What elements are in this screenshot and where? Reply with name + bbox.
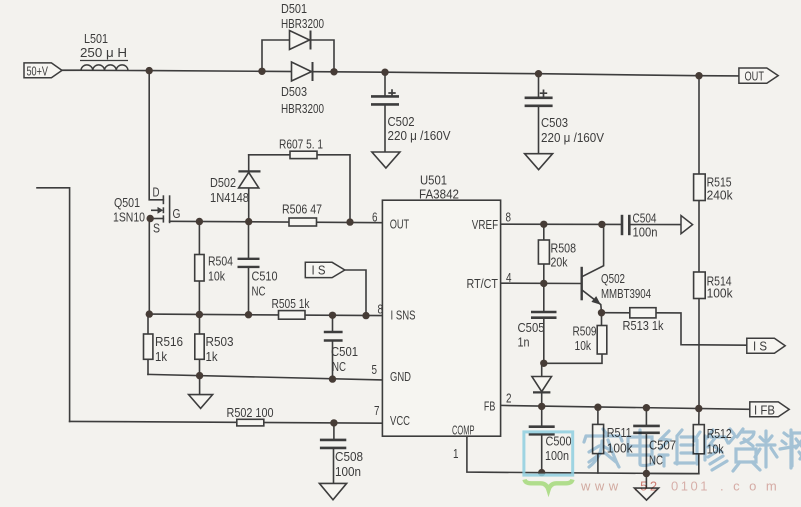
wire: C502 branch down from rail <box>384 72 386 96</box>
svg-text:R508: R508 <box>551 241 577 256</box>
wire: ISNS line pin 8 <box>149 314 382 316</box>
resistor R516 <box>144 334 153 359</box>
svg-text:R502 100: R502 100 <box>227 405 274 420</box>
wire: Q501 source down to ISNS line <box>148 219 150 315</box>
wire: +V rail from 50+V input to OUT <box>62 70 739 76</box>
svg-text:100k: 100k <box>707 286 733 301</box>
op-amp U501 FA3842 IC box <box>382 200 500 436</box>
diode D503 HBR3200 <box>292 62 313 81</box>
svg-text:R513 1k: R513 1k <box>623 318 664 333</box>
wire: C503 branch down from rail <box>538 74 540 98</box>
capacitor C501 NC <box>324 332 343 341</box>
wire: R503 top <box>199 315 201 335</box>
svg-text:100n: 100n <box>633 225 658 240</box>
wire: emitter node through R513 <box>602 312 630 314</box>
svg-text:I S: I S <box>312 262 326 277</box>
watermark char xiu <box>694 430 728 470</box>
node: output tag OUT <box>739 68 778 83</box>
svg-text:www: www <box>580 479 623 494</box>
wire: R607 horizontal branch and down to gate line <box>249 155 350 222</box>
svg-text:C503: C503 <box>541 115 568 130</box>
wire: C504 to arrow <box>630 224 682 226</box>
wire: R513 right to IS line <box>656 313 747 345</box>
watermark char wei <box>659 430 694 466</box>
svg-text:10k: 10k <box>575 338 592 353</box>
svg-text:VCC: VCC <box>390 413 410 428</box>
wire: R504 vertical through <box>198 222 200 315</box>
svg-text:R607 5. 1: R607 5. 1 <box>279 137 323 152</box>
svg-text:250 μ H: 250 μ H <box>80 45 127 60</box>
capacitor C508 <box>320 440 346 448</box>
resistor R505 <box>279 311 306 320</box>
svg-text:5: 5 <box>372 362 378 377</box>
wire: IS tag to ISNS line <box>345 270 366 316</box>
capacitor C500 <box>529 427 555 435</box>
svg-text:D502: D502 <box>210 175 236 190</box>
svg-text:R509: R509 <box>573 324 597 339</box>
wire: R512 bottom to bottom rail corner <box>646 454 698 474</box>
svg-text:.52: .52 <box>634 479 660 494</box>
svg-text:C500: C500 <box>546 434 572 449</box>
wire: ground stub under R503 node <box>199 376 201 395</box>
wire: C508 bottom to ground <box>333 448 335 483</box>
svg-text:RT/CT: RT/CT <box>467 276 499 291</box>
capacitor C507 NC <box>633 426 660 433</box>
wire: RT/CT line pin 4 <box>501 282 582 284</box>
svg-text:R505 1k: R505 1k <box>272 296 310 311</box>
wire: left feed stub <box>37 188 70 422</box>
resistor R509 <box>597 326 607 355</box>
wire: input to L501 <box>62 69 81 71</box>
resistor R503 <box>195 334 204 359</box>
wire: VCC line pin 7 through R502 <box>70 421 383 423</box>
wire: C500 top <box>541 406 543 426</box>
resistor R511 <box>593 424 604 453</box>
wire: C501 top <box>332 315 334 331</box>
svg-text:I FB: I FB <box>754 402 775 417</box>
svg-text:1: 1 <box>453 446 459 461</box>
capacitor C502 <box>371 89 399 104</box>
wire: FB diode cathode to FB line <box>541 393 543 407</box>
svg-text:D503: D503 <box>281 84 307 99</box>
wire: GND line pin 5 <box>148 374 382 380</box>
svg-text:1n: 1n <box>518 335 530 350</box>
wire: node to R509 bottom <box>544 354 602 363</box>
watermark: Chinese characters (hand-drawn strokes) <box>584 429 801 471</box>
wire: R511 top <box>597 407 599 424</box>
capacitor C503 <box>525 90 553 106</box>
svg-text:2: 2 <box>506 391 512 406</box>
resistor R607 <box>290 151 317 158</box>
svg-text:OUT: OUT <box>745 68 765 83</box>
watermark char zi <box>729 429 760 471</box>
wire: R509 top to emitter node <box>601 313 603 326</box>
svg-text:HBR3200: HBR3200 <box>281 16 324 31</box>
svg-text:50+V: 50+V <box>27 63 49 78</box>
wire: C500 bottom <box>541 435 543 473</box>
wire: C508 top <box>333 423 335 439</box>
svg-text:R503: R503 <box>206 334 234 349</box>
svg-text:8: 8 <box>506 210 512 225</box>
watermark char liao <box>755 430 797 468</box>
svg-text:NC: NC <box>332 359 346 374</box>
svg-text:100n: 100n <box>335 464 361 479</box>
wire: C502 to ground <box>384 105 386 152</box>
svg-text:Q501: Q501 <box>114 195 140 210</box>
node: input tag 50+V <box>24 63 62 78</box>
svg-text:VREF: VREF <box>472 217 498 232</box>
svg-text:1SN10: 1SN10 <box>113 210 145 225</box>
watermark: green underbrace below C500 <box>525 480 573 490</box>
resistor R515 <box>694 174 706 201</box>
ground under C507 <box>634 488 658 500</box>
svg-text:220 μ /160V: 220 μ /160V <box>541 130 604 145</box>
transistor Q501 1SN10 MOSFET <box>151 195 170 223</box>
wire: COMP pin 1 stub and bottom rail <box>467 436 699 473</box>
wire: R516 bottom to GND line <box>147 359 149 374</box>
node: tag IS right <box>747 338 785 353</box>
svg-text:Q502: Q502 <box>601 271 625 286</box>
capacitor C510 NC <box>238 259 260 267</box>
wire: C503 to ground <box>538 106 540 154</box>
svg-text:C501: C501 <box>331 344 358 359</box>
wire: C510 top <box>248 222 250 258</box>
svg-text:1N4148: 1N4148 <box>210 190 249 205</box>
resistor R512 <box>693 425 704 454</box>
wire: C505 top <box>543 283 545 311</box>
svg-text:240k: 240k <box>707 188 733 203</box>
resistor R504 <box>195 255 204 282</box>
diode D502 1N4148 <box>238 171 260 188</box>
svg-text:I SNS: I SNS <box>391 308 416 323</box>
svg-text:1k: 1k <box>155 349 167 364</box>
svg-text:100n: 100n <box>545 448 569 463</box>
svg-text:R516: R516 <box>155 334 183 349</box>
wire: C507 top <box>645 408 647 426</box>
svg-text:1k: 1k <box>206 349 218 364</box>
svg-text:10k: 10k <box>208 269 225 284</box>
wire: right vertical bus through R515 R514 R512 <box>698 76 700 425</box>
resistor R514 <box>694 272 706 299</box>
ground under R503 GND line <box>189 395 213 409</box>
wire: D502 branch up from gate line <box>248 188 250 222</box>
svg-text:OUT: OUT <box>390 217 410 232</box>
wire: FB diode anode <box>541 363 543 376</box>
wire: Q501 source lead <box>150 218 163 220</box>
watermark char wang <box>792 433 801 466</box>
svg-text:HBR3200: HBR3200 <box>281 101 324 116</box>
wire: VREF line pin 8 to C504 <box>501 223 622 225</box>
svg-text:S: S <box>153 221 160 236</box>
resistor R502 <box>237 419 264 426</box>
wire: C510 bottom to ISNS <box>248 267 250 314</box>
svg-text:4: 4 <box>506 270 512 285</box>
watermark: www.520101.com pink text <box>580 479 786 494</box>
svg-text:G: G <box>173 206 181 221</box>
diode D5 FB clamp <box>532 377 552 393</box>
svg-text:R504: R504 <box>208 254 233 269</box>
svg-text:.com: .com <box>720 479 786 494</box>
svg-text:MMBT3904: MMBT3904 <box>601 286 651 301</box>
wire: R508 bottom <box>543 264 545 283</box>
ground under C508 <box>319 483 346 499</box>
watermark char dian <box>628 430 654 466</box>
transistor Q502 MMBT3904 <box>582 225 604 313</box>
wire: D501 parallel branch <box>262 40 334 72</box>
ground under C503 <box>525 154 553 170</box>
svg-text:220 μ /160V: 220 μ /160V <box>388 128 451 143</box>
svg-text:0101: 0101 <box>671 479 710 494</box>
svg-text:COMP: COMP <box>452 423 475 438</box>
resistor R506 <box>289 218 317 226</box>
diode D501 HBR3200 <box>290 31 311 50</box>
wire: gate line from Q501 to pin 6 through R506 <box>170 221 383 222</box>
svg-text:FB: FB <box>484 399 496 414</box>
capacitor C504 <box>622 215 629 235</box>
node: tag IS upper <box>305 262 345 277</box>
svg-text:C502: C502 <box>388 114 415 129</box>
wire: FB line pin 2 to IFB tag <box>501 405 750 409</box>
inductor L501 <box>80 61 128 71</box>
svg-text:U501: U501 <box>420 173 447 188</box>
svg-text:6: 6 <box>372 210 378 225</box>
svg-text:C508: C508 <box>335 449 363 464</box>
svg-text:C510: C510 <box>252 269 278 284</box>
svg-text:C505: C505 <box>518 320 545 335</box>
wire: R511 bottom <box>597 454 599 473</box>
wire: R508 top <box>543 224 545 240</box>
wire: R503 bottom <box>199 359 201 375</box>
svg-text:GND: GND <box>390 369 411 384</box>
watermark: teal highlight box around C500 <box>524 432 573 475</box>
svg-text:FA3842: FA3842 <box>419 187 459 202</box>
wire: C507 bottom to ground <box>645 433 647 488</box>
ground under C502 <box>372 152 400 168</box>
svg-text:8: 8 <box>378 302 384 317</box>
wire: R516 top <box>147 314 149 334</box>
svg-text:L501: L501 <box>84 31 108 46</box>
svg-text:D: D <box>153 185 160 200</box>
svg-text:7: 7 <box>374 403 380 418</box>
resistor R508 <box>538 240 549 264</box>
wire: Q501 drain from rail node <box>149 71 163 200</box>
resistor R513 <box>630 308 656 318</box>
node: VREF output arrow <box>681 216 693 234</box>
svg-text:D501: D501 <box>281 1 307 16</box>
svg-text:C504: C504 <box>633 211 657 226</box>
svg-text:20k: 20k <box>551 255 568 270</box>
svg-text:R506 47: R506 47 <box>282 202 322 217</box>
node: tag IFB <box>750 402 789 417</box>
wire: D502 cathode up to R607 line <box>248 155 250 172</box>
svg-text:I S: I S <box>753 338 767 353</box>
svg-text:NC: NC <box>252 284 266 299</box>
capacitor C505 <box>531 312 557 318</box>
watermark char jia <box>584 429 622 467</box>
wire: C501 bottom to GND line <box>332 341 334 379</box>
wire: C505 bottom to node <box>543 318 545 363</box>
